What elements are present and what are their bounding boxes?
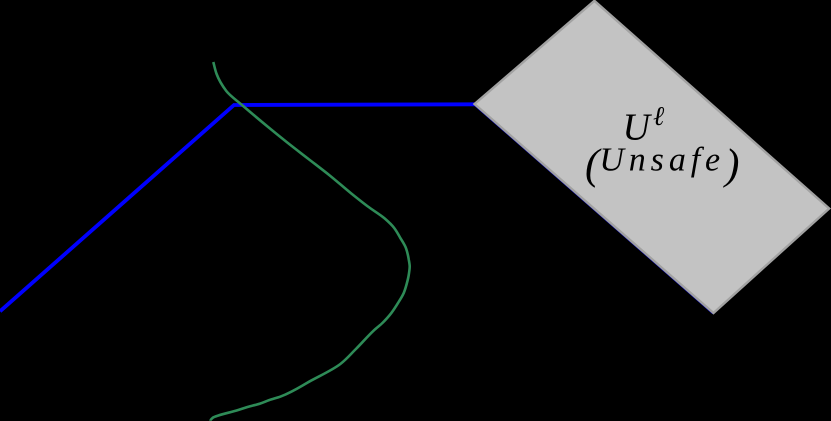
wire: green trajectory curve xyxy=(211,62,410,421)
wire: hidden blue boundary continuation under unsafe-region edge xyxy=(475,104,714,313)
wire: blue boundary polyline (diagonal from lower-left + horizontal segment) xyxy=(0,104,475,311)
node U-ell: unsafe region rotated rectangle xyxy=(475,1,830,313)
